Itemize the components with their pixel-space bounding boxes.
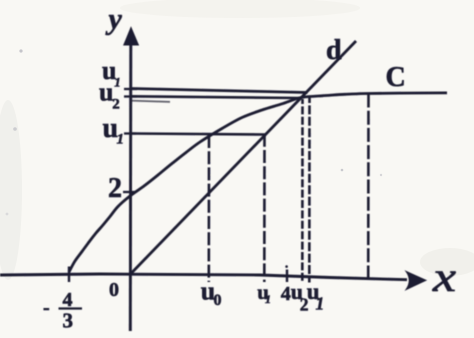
svg-text:1: 1	[316, 293, 325, 313]
svg-text:x: x	[432, 255, 457, 301]
svg-text:u: u	[99, 78, 113, 107]
svg-text:C: C	[386, 62, 406, 93]
svg-text:1: 1	[265, 292, 271, 306]
svg-text:3: 3	[63, 309, 74, 333]
svg-text:2: 2	[112, 97, 120, 113]
svg-text:2: 2	[108, 173, 122, 204]
svg-text:0: 0	[109, 279, 119, 301]
svg-text:4: 4	[281, 283, 291, 305]
svg-text:1: 1	[114, 75, 121, 90]
svg-text:-: -	[43, 297, 50, 319]
svg-text:1: 1	[117, 132, 125, 148]
svg-text:y: y	[106, 3, 123, 36]
svg-text:0: 0	[214, 292, 222, 309]
svg-text:d: d	[326, 35, 342, 66]
